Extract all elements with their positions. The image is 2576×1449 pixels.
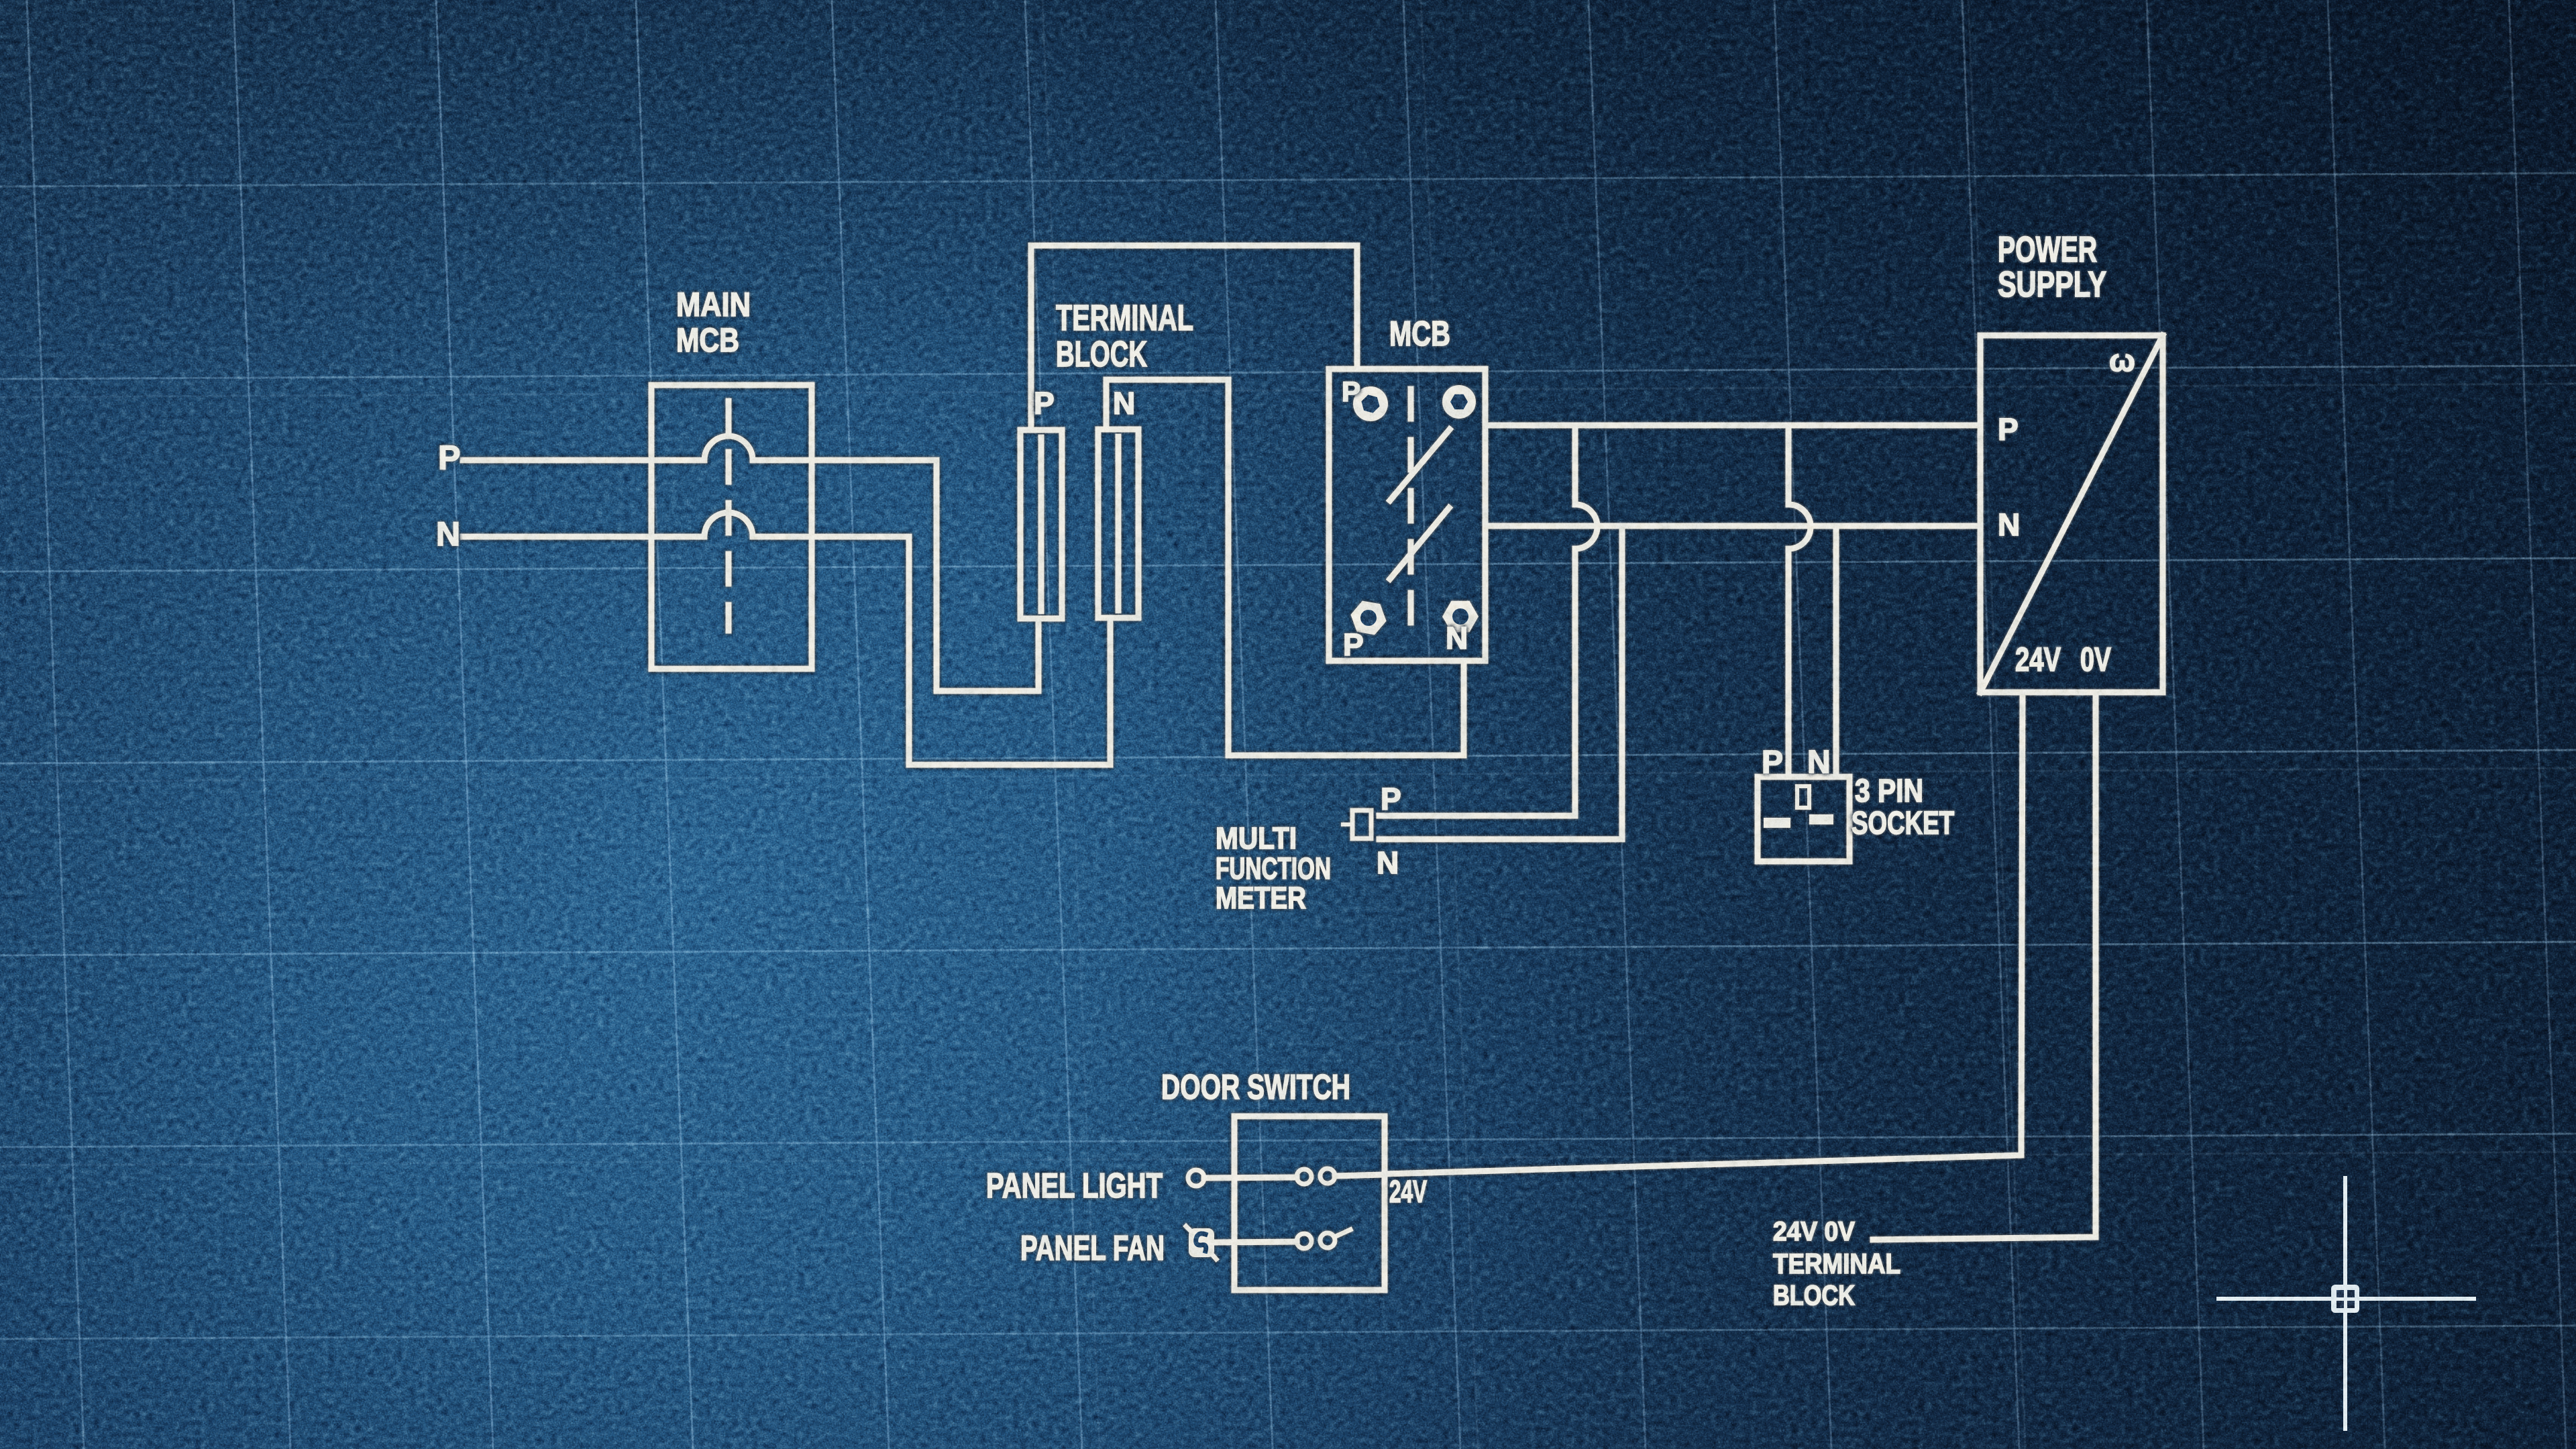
MCB pole linkage (dashed) bbox=[1408, 389, 1414, 637]
MCB bolt bottom-left bbox=[1350, 601, 1386, 635]
socket earth pin bbox=[1797, 786, 1809, 808]
MCB switch blade 1 bbox=[1390, 429, 1450, 500]
wire 0V output leader to terminal block label bbox=[1873, 692, 2096, 1240]
wire panel light to contact bbox=[1204, 1177, 1297, 1178]
wire N bus: MCB to power supply bbox=[1485, 523, 1980, 529]
power supply box bbox=[1980, 335, 2163, 692]
wire P input with breaker bump through MAIN MCB bbox=[463, 436, 1038, 691]
main MCB trip linkage (dashed) bbox=[726, 401, 732, 631]
door switch light contact bbox=[1297, 1169, 1385, 1184]
MCB bolt top-right bbox=[1442, 385, 1476, 419]
wire socket P tap (hops N bus) bbox=[1788, 425, 1811, 777]
main MCB box bbox=[651, 385, 812, 669]
MCB bolt bottom-right bbox=[1442, 601, 1479, 633]
door switch fan contact (open) bbox=[1297, 1230, 1350, 1248]
MCB bolt top-left bbox=[1353, 386, 1388, 421]
terminal block P fuse bbox=[1020, 430, 1062, 619]
meter connector symbol bbox=[1343, 810, 1371, 839]
socket slot right bbox=[1809, 814, 1833, 824]
socket slot left bbox=[1764, 818, 1790, 828]
MCB box bbox=[1329, 369, 1485, 661]
wire terminal block P to MCB (top loop) bbox=[1031, 246, 1357, 430]
power supply diagonal bbox=[1980, 335, 2163, 692]
wire meter P tap (hops N bus) bbox=[1379, 425, 1597, 816]
wire meter N tap bbox=[1379, 526, 1622, 839]
3 pin socket box bbox=[1758, 777, 1849, 861]
wire N input with breaker bump through MAIN MCB bbox=[463, 513, 1110, 765]
wire 24V output to door switch bbox=[1385, 692, 2023, 1174]
door switch box bbox=[1234, 1116, 1385, 1290]
CAD pickbox bbox=[2331, 1285, 2359, 1313]
wire P bus: MCB to power supply bbox=[1485, 423, 1980, 429]
wire panel fan to contact bbox=[1213, 1242, 1297, 1242]
wire terminal block N to MCB (lower loop) bbox=[1106, 380, 1464, 755]
terminal block N fuse bbox=[1098, 429, 1138, 618]
CAD crosshair cursor bbox=[2216, 1176, 2476, 1431]
panel light terminal circle bbox=[1188, 1170, 1204, 1186]
panel fan symbol bbox=[1186, 1226, 1216, 1259]
MCB switch blade 2 bbox=[1390, 508, 1449, 579]
wire socket N tap bbox=[1833, 526, 1839, 777]
